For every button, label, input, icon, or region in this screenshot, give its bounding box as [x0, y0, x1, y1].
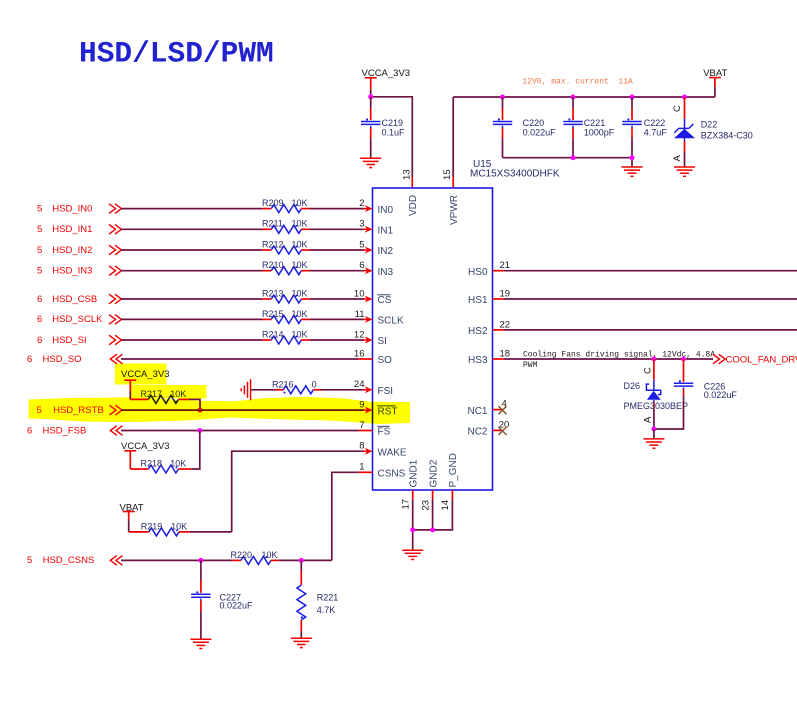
pin 21 HS0 [493, 270, 504, 272]
wire CSNS vertical [332, 472, 359, 560]
svg-text:IN0: IN0 [378, 205, 394, 216]
wire R209 to pin 2 [310, 208, 365, 210]
pin 19 HS1 [493, 298, 504, 300]
ground (IC) [402, 550, 423, 559]
svg-text:1: 1 [359, 462, 364, 473]
svg-text:R210: R210 [262, 260, 284, 270]
svg-text:0.1uF: 0.1uF [382, 128, 406, 138]
capacitor C220 [493, 97, 556, 158]
ground (under D26) [643, 439, 664, 448]
node HSD_CSNS net flag [27, 555, 94, 566]
svg-text:COOL_FAN_DRV_P: COOL_FAN_DRV_P [726, 354, 797, 365]
svg-text:18: 18 [500, 348, 511, 359]
node D26/C226 ground junction [651, 427, 656, 432]
svg-text:13: 13 [401, 169, 412, 180]
wire decoupling bottom rail [503, 158, 633, 167]
highlight HSD_RSTB row band [29, 397, 411, 424]
pin 14 P_GND [451, 490, 453, 500]
node HSD_IN3 net flag [37, 266, 92, 277]
svg-text:10K: 10K [292, 219, 308, 229]
wire HS2 [504, 329, 797, 331]
power flag VBAT (top right) [703, 68, 727, 97]
svg-text:D22: D22 [701, 120, 718, 130]
pin 15 VPWR wire [452, 97, 454, 177]
node HSD_IN2 net flag [37, 245, 92, 256]
wire HS3 [504, 358, 713, 360]
svg-text:11: 11 [355, 309, 365, 320]
svg-text:6: 6 [37, 314, 42, 325]
svg-text:10K: 10K [292, 239, 308, 249]
svg-text:4.7uF: 4.7uF [644, 128, 668, 138]
svg-text:12V0, max. current 11A: 12V0, max. current 11A [522, 78, 633, 87]
svg-text:23: 23 [420, 500, 431, 511]
svg-text:HSD_IN2: HSD_IN2 [52, 245, 92, 256]
wire HSD_IN2 [121, 249, 262, 251]
svg-text:A: A [672, 155, 683, 162]
svg-text:VDD: VDD [408, 195, 419, 216]
wire HS1 [504, 298, 797, 300]
wire HSD_FSB to pin 7 [121, 430, 358, 432]
resistor R216 0 [251, 380, 321, 394]
wire HS0 [504, 270, 797, 272]
svg-text:6: 6 [27, 425, 32, 436]
svg-text:NC1: NC1 [467, 406, 487, 417]
svg-text:HSD_FSB: HSD_FSB [43, 425, 87, 436]
svg-text:PWM: PWM [523, 361, 538, 370]
resistor R211 10K [262, 219, 310, 234]
capacitor C227 [191, 560, 253, 639]
svg-text:HSD_CSB: HSD_CSB [52, 294, 97, 305]
svg-text:HSD_SCLK: HSD_SCLK [52, 314, 103, 325]
wire to ground [653, 429, 655, 439]
node GND2 bus junction [430, 527, 435, 532]
svg-text:21: 21 [500, 260, 511, 271]
svg-text:10K: 10K [292, 260, 308, 270]
ground (under C227) [190, 639, 211, 648]
node HSD_SI net flag [37, 335, 87, 346]
svg-text:0.022uF: 0.022uF [220, 601, 254, 611]
svg-text:P_GND: P_GND [448, 453, 459, 487]
svg-text:R215: R215 [262, 309, 284, 319]
wire R212 to pin 5 [310, 249, 365, 251]
node HS3 junction D26 [651, 357, 656, 362]
svg-text:5: 5 [359, 239, 364, 250]
wire VCCA_3V3 to VDD [371, 90, 413, 177]
highlight VCCA_3V3 block [115, 364, 167, 385]
capacitor C222 [622, 97, 667, 158]
svg-text:12: 12 [354, 329, 365, 340]
resistor R212 10K [262, 239, 310, 254]
wire R216 to pin 24 [321, 389, 365, 391]
svg-text:R219: R219 [141, 521, 163, 531]
svg-text:6: 6 [37, 294, 42, 305]
svg-text:10K: 10K [292, 329, 308, 339]
svg-text:GND2: GND2 [428, 459, 439, 487]
svg-text:HSD/LSD/PWM: HSD/LSD/PWM [79, 37, 274, 71]
pin 20 NC2 [493, 429, 503, 431]
svg-text:R221: R221 [317, 592, 339, 602]
svg-text:24: 24 [354, 379, 365, 390]
node HS3 junction C226 [681, 357, 686, 362]
svg-text:SCLK: SCLK [378, 316, 404, 327]
node GND1 bus junction [410, 527, 415, 532]
svg-text:CSNS: CSNS [378, 469, 406, 480]
wire R214 to pin 12 [310, 339, 365, 341]
ground (under C222) [622, 167, 643, 176]
svg-text:10K: 10K [292, 198, 308, 208]
resistor R217 10K [130, 389, 200, 410]
svg-text:NC2: NC2 [467, 427, 487, 438]
svg-text:MC15XS3400DHFK: MC15XS3400DHFK [470, 169, 560, 180]
pin 4 NC1 [493, 409, 503, 411]
svg-text:R218: R218 [141, 459, 163, 469]
svg-text:HS1: HS1 [468, 295, 488, 306]
node R217/HSD_RSTB junction [198, 408, 203, 413]
svg-text:R211: R211 [262, 219, 283, 229]
svg-text:D26: D26 [624, 381, 641, 391]
pin 18 HS3 [493, 358, 504, 360]
svg-text:16: 16 [354, 348, 365, 359]
capacitor C226 [654, 359, 737, 429]
svg-text:HS2: HS2 [468, 326, 488, 337]
node rail junction D22 [682, 95, 687, 100]
highlight R217 band [131, 385, 207, 399]
svg-text:2: 2 [359, 198, 364, 209]
svg-text:10K: 10K [262, 550, 278, 560]
resistor R218 10K [130, 431, 200, 474]
svg-text:WAKE: WAKE [378, 447, 407, 458]
svg-text:5: 5 [37, 203, 42, 214]
svg-text:8: 8 [359, 441, 364, 452]
svg-text:1000pF: 1000pF [584, 128, 615, 138]
zener diode D22 [672, 97, 753, 167]
svg-text:IN3: IN3 [378, 267, 394, 278]
svg-text:0.022uF: 0.022uF [523, 128, 557, 138]
svg-text:HSD_IN3: HSD_IN3 [52, 266, 92, 277]
wire R211 to pin 3 [310, 228, 365, 230]
svg-text:C220: C220 [523, 118, 545, 128]
capacitor C221 [563, 97, 614, 158]
svg-text:A: A [643, 416, 654, 423]
wire HSD_SCLK [121, 318, 262, 320]
svg-text:PMEG3030BEP: PMEG3030BEP [624, 401, 689, 411]
node rail junction C221 [571, 95, 576, 100]
svg-text:VPWR: VPWR [449, 195, 460, 225]
wire WAKE to R219 [232, 451, 365, 532]
svg-text:10K: 10K [171, 521, 187, 531]
node bottom rail C221 [571, 155, 576, 160]
pin 22 HS2 [493, 329, 504, 331]
svg-text:6: 6 [359, 260, 364, 271]
svg-text:IN2: IN2 [378, 246, 394, 257]
svg-text:SO: SO [378, 355, 393, 366]
svg-text:R214: R214 [262, 329, 284, 339]
svg-text:10K: 10K [292, 309, 308, 319]
node HSD_SO net flag [27, 354, 82, 365]
ground (FSI, rotated) [241, 379, 250, 400]
svg-text:R212: R212 [262, 239, 284, 249]
power flag VBAT (R219) [120, 502, 144, 532]
wire HSD_CSNS [121, 559, 232, 561]
svg-text:C: C [643, 367, 654, 374]
wire R215 to pin 11 [310, 318, 365, 320]
resistor R213 10K [262, 288, 310, 303]
wire R210 to pin 6 [310, 270, 365, 272]
svg-text:10K: 10K [292, 288, 308, 298]
schottky diode D26 [624, 359, 689, 429]
node R221 junction [299, 558, 304, 563]
node C227 junction [198, 558, 203, 563]
svg-text:0.022uF: 0.022uF [704, 390, 738, 400]
svg-text:HS0: HS0 [468, 267, 488, 278]
ground (under D22) [674, 167, 695, 176]
svg-text:HSD_SI: HSD_SI [52, 335, 86, 346]
svg-text:SI: SI [378, 336, 387, 347]
power flag VCCA_3V3 (R218) [121, 441, 170, 469]
svg-text:0: 0 [312, 380, 317, 390]
node HSD_IN0 net flag [37, 203, 92, 214]
svg-text:IN1: IN1 [378, 226, 394, 237]
capacitor C219 [361, 97, 405, 159]
svg-text:19: 19 [500, 288, 511, 299]
svg-text:HSD_IN0: HSD_IN0 [52, 203, 92, 214]
node rail junction C220 [500, 95, 505, 100]
svg-text:14: 14 [440, 500, 451, 511]
svg-text:C222: C222 [644, 118, 666, 128]
power flag VCCA_3V3 (R217) [121, 369, 170, 399]
wire HSD_IN1 [121, 228, 262, 230]
wire HSD_IN3 [121, 270, 262, 272]
svg-text:10K: 10K [170, 459, 186, 469]
pin 23 GND2 [432, 490, 434, 500]
svg-text:5: 5 [27, 555, 32, 566]
svg-text:HSD_CSNS: HSD_CSNS [43, 555, 95, 566]
svg-text:5: 5 [37, 224, 42, 235]
wire HSD_IN0 [121, 208, 262, 210]
node COOL_FAN_DRV_PWM off-page [713, 354, 725, 364]
svg-text:22: 22 [500, 319, 511, 330]
svg-text:R213: R213 [262, 288, 284, 298]
svg-text:5: 5 [37, 266, 42, 277]
node HSD_SCLK net flag [37, 314, 103, 325]
node bottom rail C222 [630, 155, 635, 160]
power flag VCCA_3V3 (top) [362, 68, 411, 90]
node HSD_IN1 net flag [37, 224, 92, 235]
svg-text:5: 5 [37, 245, 42, 256]
resistor R214 10K [262, 329, 310, 344]
resistor R221 4.7K (vertical) [297, 560, 338, 638]
ground (under R221) [291, 638, 312, 647]
resistor R209 10K [262, 198, 310, 213]
node HSD_CSB net flag [37, 294, 97, 305]
svg-text:15: 15 [442, 169, 453, 180]
resistor R220 10K [231, 550, 332, 565]
wire HSD_RSTB to pin 9 [122, 409, 365, 411]
wire HSD_SO to pin 16 [121, 358, 358, 360]
resistor R219 10K [129, 521, 232, 536]
wire HSD_CSB [121, 298, 262, 300]
pin 13 VDD stub [411, 177, 413, 188]
wire HSD_SI [121, 339, 262, 341]
wire 12V rail [453, 96, 715, 98]
node HSD_FSB net flag [27, 425, 86, 436]
wire R213 to pin 10 [310, 298, 365, 300]
ground (under C219) [360, 158, 381, 167]
svg-text:FSI: FSI [378, 386, 394, 397]
svg-text:C219: C219 [382, 118, 404, 128]
resistor R210 10K [262, 260, 310, 275]
svg-text:R216: R216 [272, 380, 294, 390]
node rail junction C222 [630, 95, 635, 100]
svg-text:R209: R209 [262, 198, 284, 208]
node R218/HSD_FSB junction [197, 428, 202, 433]
svg-text:HSD_SO: HSD_SO [43, 354, 82, 365]
svg-text:17: 17 [400, 499, 411, 510]
svg-text:HSD_IN1: HSD_IN1 [52, 224, 92, 235]
svg-text:CS: CS [378, 295, 392, 306]
svg-text:6: 6 [27, 354, 32, 365]
svg-text:BZX384-C30: BZX384-C30 [701, 130, 753, 140]
svg-text:HS3: HS3 [468, 355, 488, 366]
node VCCA_3V3 junction [368, 94, 373, 99]
resistor R215 10K [262, 309, 310, 324]
svg-text:3: 3 [359, 219, 364, 230]
node HSD_RSTB net flag [37, 405, 104, 416]
op-amp/IC U15 MC15XS3400DHFK box [373, 188, 493, 490]
highlighter overlay [29, 364, 411, 425]
svg-text:4.7K: 4.7K [317, 605, 336, 615]
svg-text:GND1: GND1 [408, 459, 419, 487]
svg-text:6: 6 [37, 335, 42, 346]
svg-text:FS: FS [378, 427, 391, 438]
svg-text:10: 10 [354, 288, 365, 299]
svg-text:C: C [672, 105, 683, 112]
svg-text:Cooling Fans driving signal, 1: Cooling Fans driving signal, 12Vdc, 4.8A [523, 351, 715, 360]
pin 17 GND1 [412, 490, 414, 500]
svg-text:R220: R220 [231, 550, 253, 560]
svg-text:C221: C221 [584, 118, 606, 128]
